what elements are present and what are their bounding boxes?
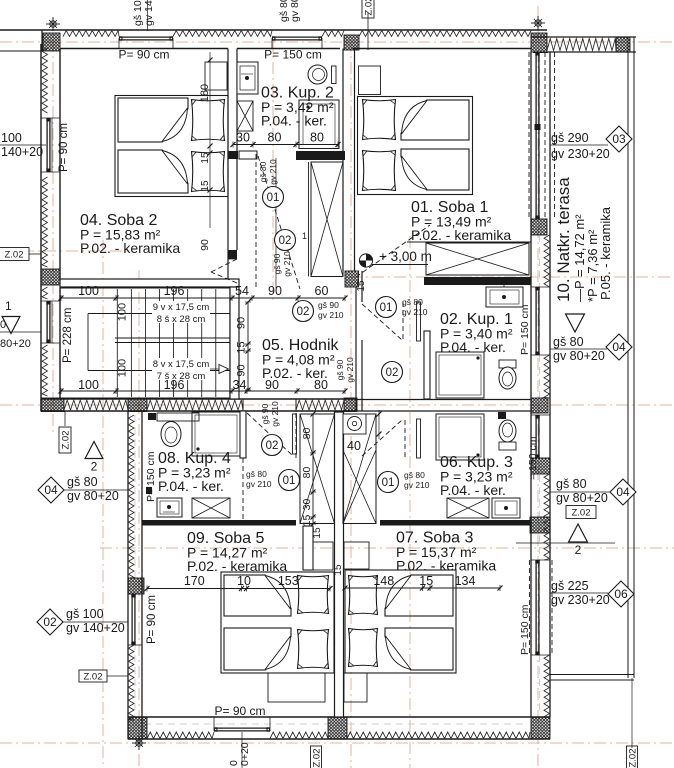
svg-text:P= 150 cm: P= 150 cm [519, 304, 531, 355]
svg-text:gv 210: gv 210 [270, 401, 280, 427]
svg-text:15: 15 [301, 515, 313, 527]
svg-text:gv 80+20: gv 80+20 [553, 349, 605, 363]
svg-text:gš 80: gš 80 [246, 469, 267, 479]
svg-text:P.02. - ker.: P.02. - ker. [262, 365, 328, 381]
svg-text:2: 2 [575, 543, 582, 557]
svg-text:2: 2 [91, 460, 98, 474]
svg-text:01: 01 [267, 192, 280, 204]
svg-text:02: 02 [43, 615, 57, 629]
svg-text:10. Natkr. terasa: 10. Natkr. terasa [554, 177, 573, 302]
svg-text:P.02. - keramika: P.02. - keramika [187, 558, 287, 574]
svg-text:P.04. - ker.: P.04. - ker. [440, 339, 506, 355]
svg-text:Z.02: Z.02 [83, 672, 102, 683]
svg-text:Z.02: Z.02 [61, 430, 72, 449]
svg-text:gš 90: gš 90 [335, 359, 345, 380]
svg-text:gš 90: gš 90 [260, 403, 270, 424]
svg-text:100: 100 [117, 359, 129, 377]
svg-text:02: 02 [279, 235, 292, 247]
svg-text:gš 290: gš 290 [551, 131, 589, 145]
svg-text:P= 90 cm: P= 90 cm [214, 704, 265, 718]
svg-text:80+20: 80+20 [0, 338, 31, 350]
svg-text:15: 15 [419, 574, 433, 588]
svg-text:gš 90: gš 90 [318, 300, 339, 310]
svg-text:03: 03 [612, 132, 626, 146]
svg-text:80: 80 [268, 131, 282, 145]
svg-text:9 v x 17,5 cm: 9 v x 17,5 cm [153, 302, 210, 313]
svg-text:30: 30 [301, 499, 313, 511]
svg-text:0: 0 [0, 319, 6, 331]
svg-text:01: 01 [283, 475, 296, 487]
svg-text:P.04. - ker.: P.04. - ker. [158, 478, 224, 494]
svg-text:P= 150 cm: P= 150 cm [264, 48, 322, 62]
svg-text:15: 15 [356, 280, 367, 292]
svg-text:P= 90 cm: P= 90 cm [58, 123, 70, 172]
svg-text:1: 1 [5, 299, 12, 313]
svg-text:90: 90 [268, 284, 282, 298]
svg-text:02: 02 [266, 440, 279, 452]
svg-text:gv 210: gv 210 [268, 159, 278, 185]
svg-text:gš 80: gš 80 [258, 161, 268, 182]
svg-text:8 v x 17,5 cm: 8 v x 17,5 cm [153, 359, 210, 370]
svg-text:153: 153 [278, 574, 299, 588]
svg-text:P.02. - keramika: P.02. - keramika [396, 558, 496, 574]
svg-text:10: 10 [237, 574, 251, 588]
svg-text:04: 04 [616, 485, 630, 499]
svg-text:0+20: 0+20 [239, 742, 251, 766]
svg-text:gš 80: gš 80 [404, 470, 425, 480]
svg-text:Z.02: Z.02 [364, 0, 375, 16]
svg-text:15: 15 [312, 527, 323, 539]
svg-text:90: 90 [199, 239, 211, 251]
svg-text:90: 90 [236, 364, 248, 376]
svg-text:100: 100 [117, 303, 129, 321]
svg-text:100: 100 [1, 131, 22, 145]
svg-text:148: 148 [373, 574, 394, 588]
svg-text:Z.02: Z.02 [312, 748, 323, 767]
svg-text:gv 210: gv 210 [318, 310, 344, 320]
svg-text:04: 04 [44, 483, 58, 497]
svg-text:P= 150 cm: P= 150 cm [519, 604, 531, 655]
svg-text:gv 210: gv 210 [402, 307, 428, 317]
svg-text:gv 80+20: gv 80+20 [556, 491, 608, 505]
svg-text:54: 54 [235, 284, 249, 298]
svg-text:02: 02 [297, 306, 310, 318]
svg-text:90: 90 [236, 317, 248, 329]
svg-text:gv 80+20: gv 80+20 [67, 489, 119, 503]
svg-text:80: 80 [301, 467, 313, 479]
svg-text:01: 01 [380, 302, 393, 314]
svg-text:80: 80 [310, 131, 324, 145]
svg-text:P.04. - ker.: P.04. - ker. [440, 482, 506, 498]
svg-text:gv 80: gv 80 [289, 0, 301, 22]
svg-text:gš 100: gš 100 [66, 607, 104, 621]
svg-text:Z.02: Z.02 [628, 748, 639, 767]
svg-text:gš 80: gš 80 [402, 297, 423, 307]
svg-text:P.05. - keramika: P.05. - keramika [598, 206, 613, 300]
svg-text:P= 90 cm: P= 90 cm [118, 48, 169, 62]
svg-text:P.04. - ker.: P.04. - ker. [261, 113, 327, 129]
svg-text:gv 210: gv 210 [282, 251, 292, 277]
svg-text:34: 34 [233, 378, 247, 392]
svg-text:60: 60 [315, 284, 329, 298]
svg-text:02: 02 [386, 367, 399, 379]
svg-text:gš 80: gš 80 [553, 335, 584, 349]
svg-text:Z.02: Z.02 [4, 250, 23, 261]
svg-text:gv 14: gv 14 [143, 0, 155, 26]
svg-text:100: 100 [78, 284, 99, 298]
svg-text:140+20: 140+20 [1, 145, 43, 159]
svg-text:01: 01 [382, 477, 395, 489]
svg-text:8 š x 28 cm: 8 š x 28 cm [157, 314, 206, 325]
svg-text:180: 180 [199, 84, 211, 102]
svg-text:1: 1 [302, 231, 307, 241]
svg-text:196: 196 [164, 378, 185, 392]
svg-text:+ 3,00 m: + 3,00 m [379, 249, 432, 264]
svg-text:P= 150 cm: P= 150 cm [145, 451, 157, 502]
svg-text:06: 06 [614, 587, 628, 601]
svg-text:gv 140+20: gv 140+20 [66, 621, 125, 635]
svg-text:P.02. - keramika: P.02. - keramika [411, 227, 511, 243]
svg-text:gv 230+20: gv 230+20 [551, 593, 610, 607]
svg-text:P= 228 cm: P= 228 cm [62, 308, 74, 363]
svg-text:gš 80: gš 80 [67, 475, 98, 489]
svg-text:gv 210: gv 210 [404, 480, 430, 490]
svg-text:= 150 cm: = 150 cm [527, 436, 539, 480]
svg-text:170: 170 [184, 574, 205, 588]
svg-text:134: 134 [455, 574, 476, 588]
svg-text:Z.02: Z.02 [571, 508, 590, 519]
svg-text:gv 210: gv 210 [345, 357, 355, 383]
svg-text:gv 230+20: gv 230+20 [551, 147, 610, 161]
svg-text:15: 15 [236, 341, 248, 353]
svg-text:P.02. - keramika: P.02. - keramika [80, 240, 180, 256]
svg-text:196: 196 [164, 284, 185, 298]
svg-text:30: 30 [236, 131, 250, 145]
svg-text:gš 225: gš 225 [551, 579, 589, 593]
svg-text:gv 210: gv 210 [246, 479, 272, 489]
svg-text:gš 80: gš 80 [556, 477, 587, 491]
svg-text:P= 90 cm: P= 90 cm [146, 595, 158, 644]
svg-text:100: 100 [78, 378, 99, 392]
svg-text:15: 15 [333, 564, 344, 576]
svg-text:40: 40 [347, 439, 361, 453]
svg-text:04: 04 [612, 340, 626, 354]
svg-text:80: 80 [301, 428, 313, 440]
svg-text:gš 90: gš 90 [272, 253, 282, 274]
